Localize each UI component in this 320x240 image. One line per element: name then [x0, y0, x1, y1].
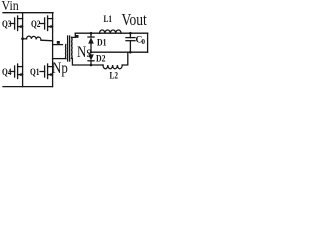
- wire output return rail: [91, 51, 148, 53]
- svg-text:D1: D1: [97, 38, 107, 48]
- wire primary bottom lead: [53, 58, 66, 60]
- svg-text:Q3: Q3: [2, 19, 12, 29]
- wire top rail Vin: [3, 12, 53, 14]
- node secondary polarity dot: [76, 35, 79, 38]
- node A junction dot: [21, 37, 24, 40]
- wire left bridge leg column: [22, 13, 24, 87]
- transistor Q2: [40, 16, 53, 31]
- svg-text:Q1: Q1: [30, 67, 40, 77]
- transistor Q4: [10, 64, 23, 79]
- wire secondary top rail to output: [75, 32, 147, 34]
- transistor Q1: [40, 64, 53, 79]
- wire output right edge: [147, 33, 149, 52]
- transformer secondary winding Ns: [71, 37, 73, 58]
- transistor Q3: [10, 16, 23, 31]
- svg-text:Vin: Vin: [2, 0, 20, 13]
- node primary polarity dot: [57, 41, 60, 44]
- transformer core lines: [68, 36, 70, 61]
- inductor L2 (output filter, bottom): [103, 65, 122, 69]
- node D1 top junction dot: [90, 32, 93, 35]
- diode D2: [88, 54, 94, 65]
- wire bottom rail: [3, 86, 53, 88]
- capacitor C0: [126, 33, 135, 52]
- wire right bridge leg column: [52, 13, 54, 87]
- inductor L1 (output filter, top): [100, 30, 122, 33]
- wire secondary top lead up: [72, 33, 76, 37]
- svg-text:L2: L2: [110, 71, 119, 81]
- svg-text:Q2: Q2: [31, 19, 41, 29]
- diode D1: [88, 33, 94, 52]
- svg-text:0: 0: [142, 38, 146, 46]
- svg-text:Ns: Ns: [77, 44, 92, 62]
- transformer primary winding Np: [65, 45, 67, 59]
- node D2 bottom junction dot: [90, 64, 93, 67]
- node C0 bottom junction dot: [129, 51, 132, 54]
- wire L2 to return rail: [122, 52, 128, 65]
- wire primary top lead: [53, 44, 63, 46]
- svg-text:Q4: Q4: [2, 67, 12, 77]
- svg-text:D2: D2: [96, 54, 106, 64]
- node C0 top junction dot: [129, 32, 132, 35]
- node diode midpoint junction dot: [90, 51, 92, 53]
- svg-text:Np: Np: [52, 60, 68, 78]
- svg-text:L1: L1: [104, 14, 113, 24]
- wire secondary bottom lead: [72, 58, 103, 65]
- inductor Lr series (bridge to primary): [23, 36, 53, 41]
- svg-text:Vout: Vout: [122, 11, 148, 30]
